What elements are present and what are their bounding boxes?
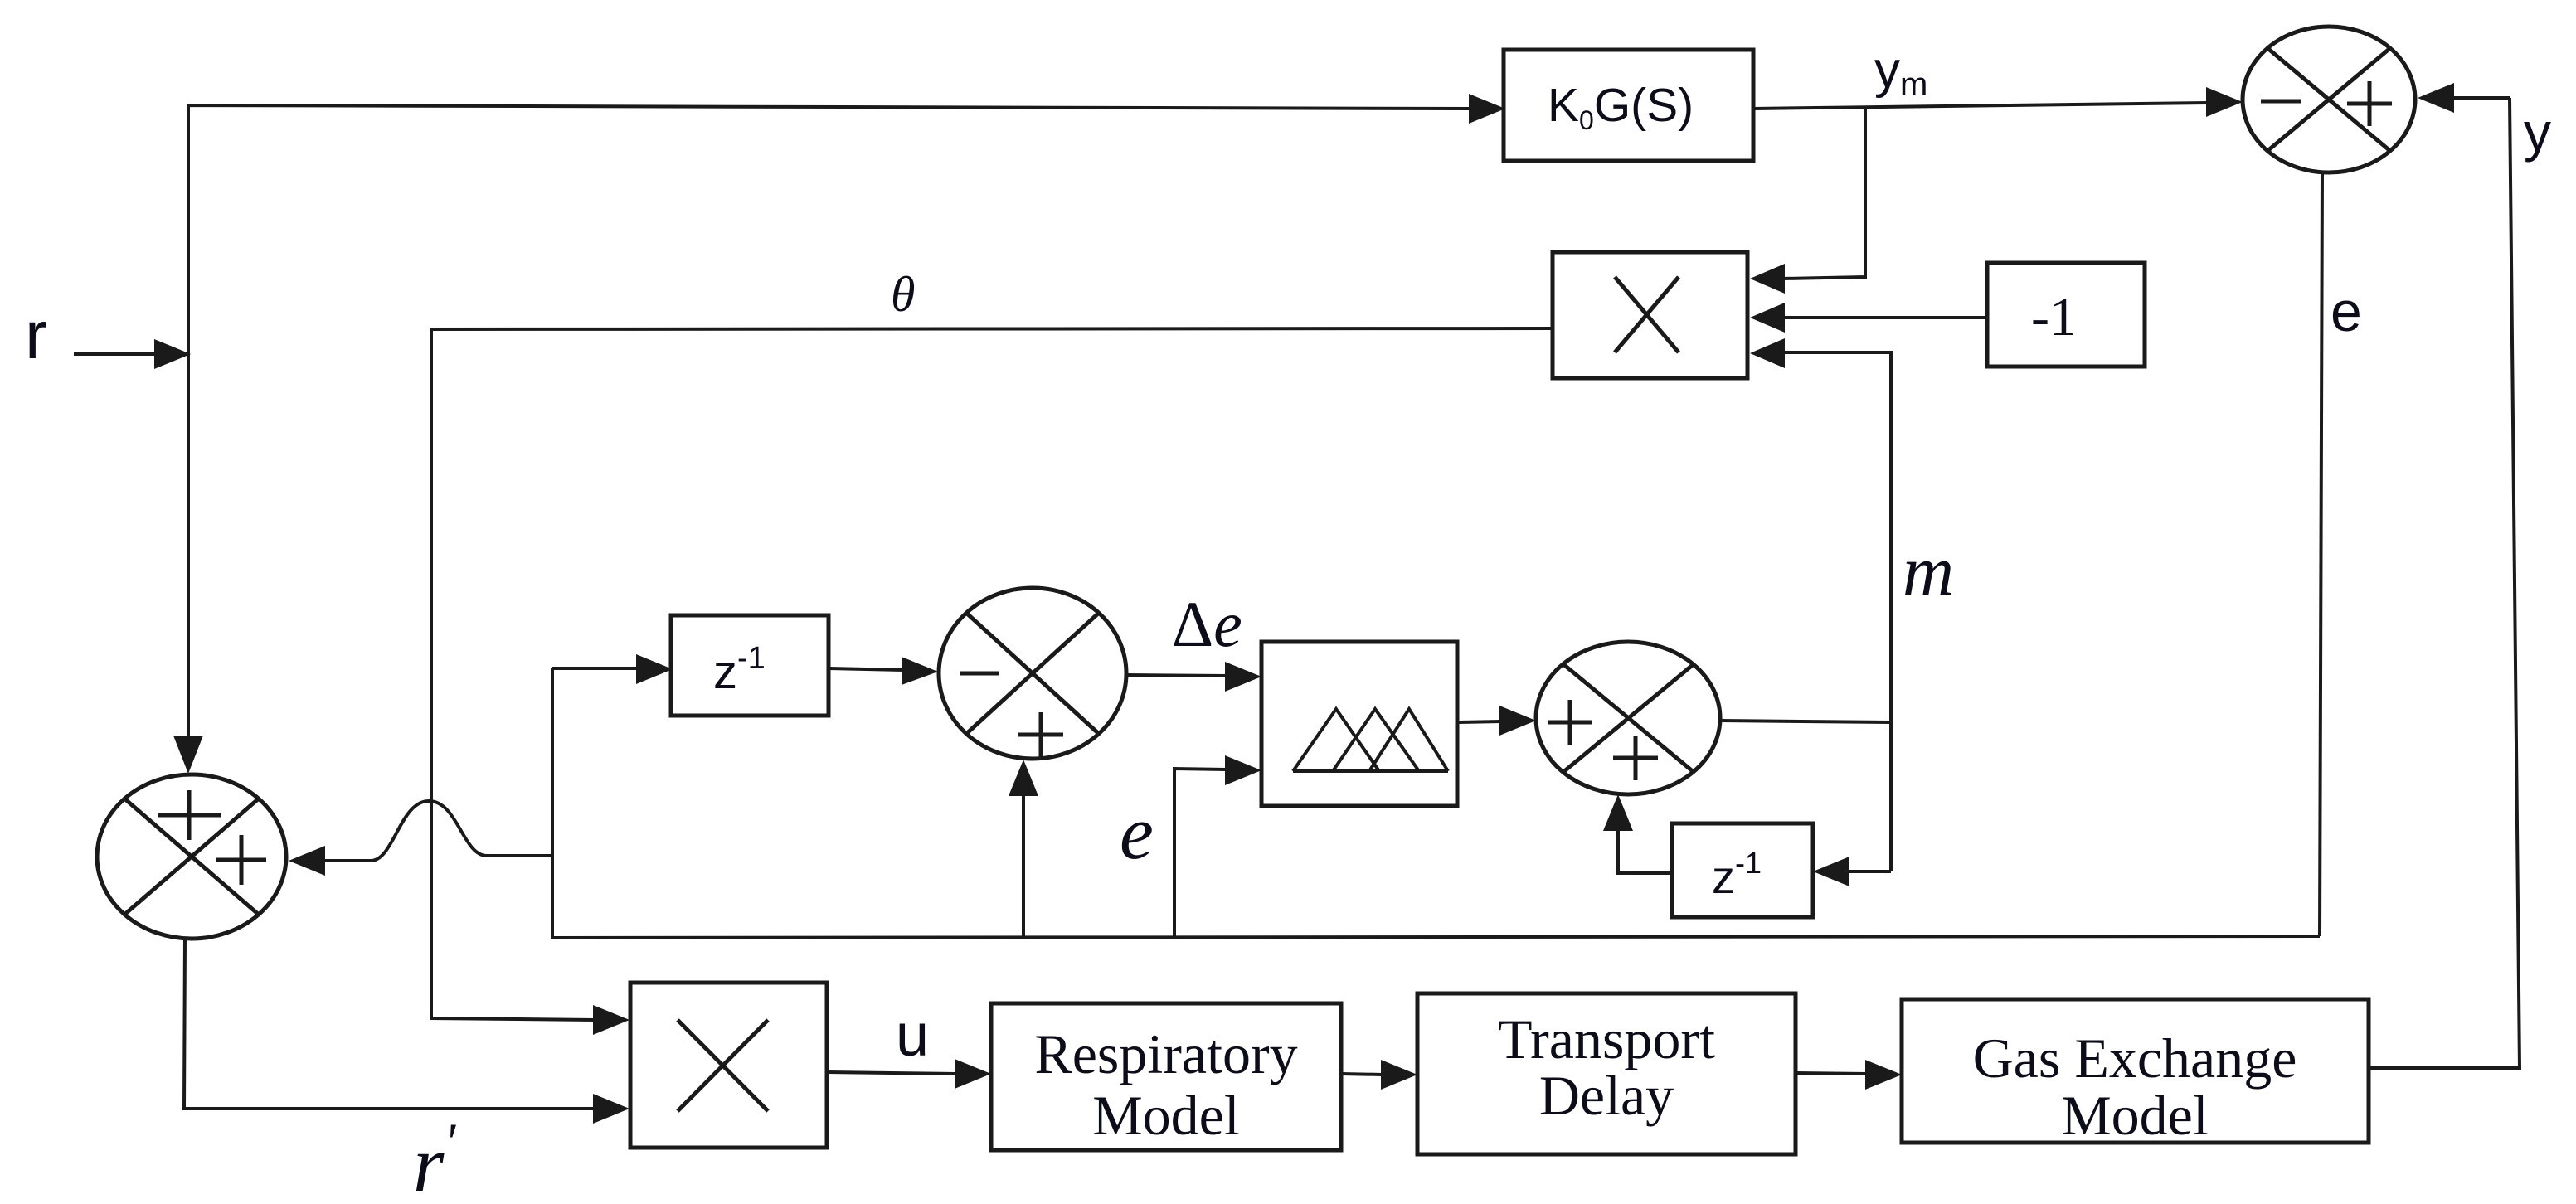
wire long e bus [552, 668, 2320, 938]
wire e into fuzzy block [1174, 769, 1227, 938]
svg-text:Delay: Delay [1539, 1064, 1674, 1127]
svg-text:Respiratory: Respiratory [1034, 1022, 1297, 1085]
svg-text:Δe: Δe [1172, 588, 1242, 660]
svg-text:r: r [25, 298, 47, 373]
block Gas Exchange Model [1902, 999, 2369, 1143]
block -1 [1987, 263, 2145, 367]
wire -1 to multiplier [1783, 316, 1987, 319]
summing junction S4 (left) [97, 774, 286, 939]
wire fuzzy to S3 [1457, 721, 1501, 722]
svg-text:K0G(S): K0G(S) [1548, 79, 1694, 135]
wire z-1 to S2 [829, 668, 903, 670]
wire top feedback r to K0G(S) [188, 105, 1469, 736]
svg-text:e: e [1120, 790, 1154, 875]
wire K0G(S) to S1 [1753, 103, 2208, 109]
wire u to Respiratory Model [827, 1072, 956, 1074]
wire wavy into S4 [289, 846, 325, 876]
wire y input into S1 right [2452, 96, 2510, 100]
label plus left in S3 [1548, 700, 1592, 745]
wire Respiratory to Transport [1341, 1074, 1383, 1075]
wire S2 to fuzzy block (delta e) [1126, 675, 1227, 676]
label plus in S1 [2347, 81, 2392, 126]
block Respiratory Model [991, 1003, 1341, 1150]
block z-1 first [671, 615, 829, 716]
wire e output of S1 down [2320, 172, 2322, 936]
block Transport Delay [1417, 993, 1796, 1154]
wire arrow into K0G(S) [1469, 94, 1505, 124]
label plus in S2 [1018, 712, 1063, 757]
arrow into summing junction S4 (down) [173, 736, 203, 774]
label plus top in S4 [158, 790, 221, 840]
svg-text:-1: -1 [2031, 287, 2077, 347]
wire S2 bottom input (e) [1022, 794, 1025, 938]
svg-text:Model: Model [2061, 1084, 2209, 1147]
svg-text:Transport: Transport [1498, 1007, 1715, 1070]
label minus in S2 [960, 672, 999, 676]
svg-text:Model: Model [1092, 1084, 1240, 1147]
svg-text:u: u [896, 1003, 929, 1069]
svg-text:Gas Exchange: Gas Exchange [1973, 1027, 2297, 1090]
block z-1 second [1672, 823, 1813, 917]
label plus bottom in S3 [1613, 736, 1658, 780]
wire arrow into S1 left [2206, 87, 2243, 117]
wire into z-1 (first) [552, 667, 638, 670]
wire Transport to Gas Exchange [1796, 1073, 1867, 1074]
summing junction S1 (top right) [2243, 27, 2415, 172]
svg-text:θ: θ [891, 267, 915, 322]
block fuzzy membership [1261, 642, 1457, 806]
summing junction S3 [1536, 642, 1720, 794]
wire ym branch down to multiplier box [1783, 107, 1865, 279]
block multiplier X (parameter update) [1553, 252, 1747, 378]
wire y feedback from Gas Exchange Model [2369, 98, 2520, 1068]
wire m into multiplier [1783, 352, 1891, 871]
block multiplier X bottom [630, 983, 827, 1148]
label plus right in S4 [216, 835, 266, 885]
wire S4 output to bottom multiplier [184, 939, 595, 1109]
node r input arrow [74, 339, 191, 369]
wire m down into z-1 second [1848, 870, 1891, 873]
wire z-1 second to S3 bottom [1618, 829, 1672, 873]
block K0G(S) [1504, 50, 1753, 161]
label minus in S1 [2261, 100, 2301, 104]
wire theta from multiplier to bottom multiplier [431, 328, 1553, 1020]
svg-text:e: e [2331, 280, 2362, 343]
svg-text:m: m [1903, 531, 1954, 610]
wire S3 output to m node [1720, 721, 1891, 722]
fuzzy triangles [1293, 709, 1448, 771]
svg-text:y: y [2524, 101, 2551, 163]
summing junction S2 [939, 588, 1126, 759]
